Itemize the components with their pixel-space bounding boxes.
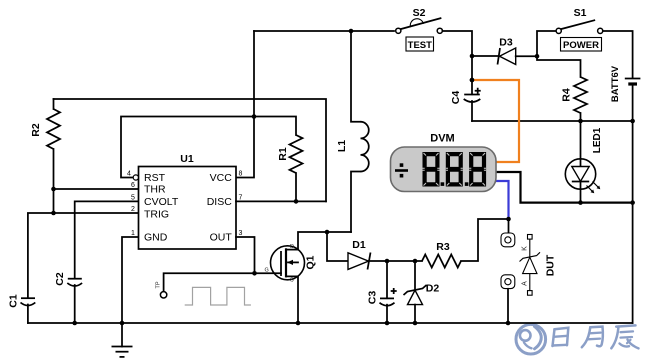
node D2 top dot xyxy=(413,259,418,264)
resistor R1 xyxy=(277,135,303,201)
svg-text:8: 8 xyxy=(239,171,243,178)
pin OUT xyxy=(210,230,243,244)
svg-text:C1: C1 xyxy=(7,294,19,308)
watermark character yue xyxy=(582,327,603,348)
wire DISC pin7 to R1 bottom and x326 xyxy=(236,200,326,202)
op-amp U1 555 timer body xyxy=(139,153,237,249)
node LED bottom dot xyxy=(578,200,583,205)
waveform test-point square wave xyxy=(185,287,251,305)
pin TRIG xyxy=(131,206,169,221)
diode DUT zener with terminals xyxy=(520,235,557,296)
svg-text:OUT: OUT xyxy=(210,232,233,244)
svg-text:S: S xyxy=(290,278,294,284)
pin RST with inversion bubble xyxy=(127,171,166,185)
DVM seven-segment digit 3 xyxy=(469,152,486,187)
watermark logo ring xyxy=(516,324,546,354)
ground xyxy=(112,347,133,357)
svg-text:CVOLT: CVOLT xyxy=(144,196,179,208)
svg-text:C2: C2 xyxy=(54,272,66,286)
svg-text:D: D xyxy=(290,244,294,250)
svg-text:GND: GND xyxy=(144,232,168,244)
svg-text:7: 7 xyxy=(239,194,243,201)
wire DVM blue lead xyxy=(495,181,509,219)
wire L1 bottom to Q1 drain xyxy=(298,232,351,250)
svg-text:BATT6V: BATT6V xyxy=(610,65,621,102)
node ground stem dot xyxy=(120,321,125,326)
svg-text:TEST: TEST xyxy=(408,40,432,51)
svg-text:S1: S1 xyxy=(574,7,587,19)
transistor Q1 MOSFET xyxy=(265,244,317,323)
pin GND xyxy=(131,230,168,244)
node blue/R3/post junction dot xyxy=(506,217,511,222)
wire TRIG pin2 to C1 branch xyxy=(28,213,139,298)
svg-text:U1: U1 xyxy=(180,153,194,165)
svg-text:L1: L1 xyxy=(336,140,348,152)
node battery-rail dot xyxy=(630,119,635,124)
pin THR xyxy=(131,182,166,196)
node TP terminal circle xyxy=(155,281,166,298)
DVM decimal point 1 xyxy=(441,182,445,186)
LED LED1 xyxy=(565,121,603,203)
svg-text:DUT: DUT xyxy=(544,254,556,276)
label POWER box xyxy=(561,38,602,52)
capacitor C4 xyxy=(450,88,481,121)
svg-text:5: 5 xyxy=(131,194,135,201)
svg-text:THR: THR xyxy=(144,184,166,196)
pin CVOLT xyxy=(131,194,179,208)
wire R2 rail y99 xyxy=(54,99,327,201)
svg-text:TRIG: TRIG xyxy=(144,209,169,221)
svg-text:6: 6 xyxy=(131,182,135,189)
wire S1 right to battery top xyxy=(603,31,633,78)
svg-text:DVM: DVM xyxy=(430,133,454,145)
diode D3 xyxy=(472,37,537,65)
capacitor C2 xyxy=(54,272,82,323)
node C3 top dot xyxy=(385,259,390,264)
connector top binding post xyxy=(501,219,515,247)
switch S1 POWER xyxy=(556,7,603,34)
wire OUT pin3 to gate node xyxy=(236,237,281,273)
node OUT/gate/TP dot xyxy=(252,271,257,276)
node R2 bottom / THR dot xyxy=(51,187,56,192)
svg-text:1: 1 xyxy=(131,230,135,237)
svg-text:K: K xyxy=(521,246,528,251)
resistor R2 xyxy=(30,99,60,189)
wire D1 node to D2 and R3 xyxy=(387,260,422,262)
svg-text:POWER: POWER xyxy=(563,40,599,51)
wire S2 right to D3 cathode node xyxy=(442,31,472,94)
pin DISC xyxy=(207,194,243,208)
svg-text:R1: R1 xyxy=(277,147,289,161)
DVM decimal point 2 xyxy=(465,182,469,186)
wire TP branch xyxy=(164,273,255,291)
svg-text:C3: C3 xyxy=(366,291,378,305)
switch S2 TEST xyxy=(396,7,443,33)
DVM plus-minus indicator xyxy=(395,163,408,177)
watermark character ri xyxy=(553,328,569,346)
svg-text:DISC: DISC xyxy=(207,196,233,208)
node VCC junction dot xyxy=(252,114,257,119)
wire THR-TRIG jumper xyxy=(53,189,55,213)
pin VCC xyxy=(210,171,243,185)
DVM seven-segment digit 1 xyxy=(0,0,440,187)
svg-text:VCC: VCC xyxy=(210,172,233,184)
node Q1 source on bottom rail dot xyxy=(296,321,301,326)
svg-text:A: A xyxy=(521,281,528,286)
inductor L1 xyxy=(336,31,369,232)
wire VCC node down to pin8 xyxy=(236,117,254,178)
svg-text:TP: TP xyxy=(155,281,161,288)
wire D3 node to R4 top xyxy=(537,56,581,77)
wire THR pin6 xyxy=(54,188,140,190)
label TEST box xyxy=(406,37,434,51)
svg-text:R3: R3 xyxy=(436,241,450,253)
wire DVM orange lead xyxy=(470,78,519,162)
DVM seven-segment digit 2 xyxy=(446,152,463,187)
svg-text:RST: RST xyxy=(144,172,166,184)
node TRIG jumper dot xyxy=(51,211,56,216)
wire DVM black lead xyxy=(495,172,633,203)
wire CVOLT pin5 to C2 branch xyxy=(75,201,139,278)
svg-text:D3: D3 xyxy=(499,37,513,49)
wire RST loop from node to RST pin xyxy=(121,117,254,178)
wire D3 node up to S1 left xyxy=(537,31,556,56)
node R1 bottom dot xyxy=(294,199,299,204)
DVM display body xyxy=(391,133,497,192)
resistor R4 xyxy=(560,77,587,121)
wire top rail from VCC node to S2 xyxy=(254,30,394,32)
svg-text:R2: R2 xyxy=(30,123,42,137)
svg-text:4: 4 xyxy=(127,171,131,178)
svg-text:Q1: Q1 xyxy=(304,255,316,269)
diode D2 zener xyxy=(404,261,440,323)
wire VCC node right to R1 top xyxy=(254,117,296,136)
svg-text:C4: C4 xyxy=(450,91,462,105)
node D2 bottom dot xyxy=(413,321,418,326)
capacitor C3 xyxy=(366,261,396,323)
battery BATT6V xyxy=(610,65,640,121)
svg-text:S2: S2 xyxy=(413,7,426,19)
node D3 anode dot xyxy=(535,54,540,59)
svg-text:D2: D2 xyxy=(426,283,440,295)
connector bottom binding post xyxy=(501,275,515,323)
diode D1 xyxy=(327,232,387,270)
node C2 bottom dot xyxy=(72,321,77,326)
node orange tap dot xyxy=(470,78,475,83)
svg-text:G: G xyxy=(265,268,269,274)
node bottom post rail dot xyxy=(506,321,511,326)
resistor R3 xyxy=(422,219,508,268)
node R4 bottom dot xyxy=(578,119,583,124)
svg-text:3: 3 xyxy=(239,230,243,237)
wire vertical x254 top-rail down to VCC node xyxy=(253,31,255,117)
wire ground mid rail y121 xyxy=(472,120,633,122)
svg-text:D1: D1 xyxy=(352,239,366,251)
watermark character chen xyxy=(611,325,638,348)
node D3 cathode dot xyxy=(470,54,475,59)
node L1 top dot xyxy=(349,29,354,34)
wire right rail down xyxy=(632,121,634,323)
svg-text:LED1: LED1 xyxy=(592,127,603,153)
wire bottom rail xyxy=(28,322,633,324)
node D1 branch dot xyxy=(325,230,330,235)
capacitor C1 xyxy=(7,294,35,323)
svg-text:2: 2 xyxy=(131,206,135,213)
node black-wire right-rail dot xyxy=(630,200,635,205)
wire GND pin1 down to ground xyxy=(122,237,139,347)
svg-text:R4: R4 xyxy=(560,88,572,102)
node C3 bottom dot xyxy=(385,321,390,326)
